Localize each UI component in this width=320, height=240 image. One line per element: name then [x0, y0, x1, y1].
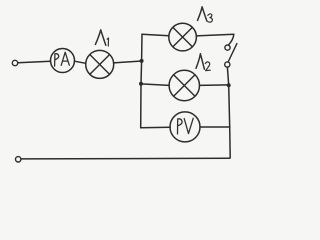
wire top branch left: [142, 34, 169, 36]
wire corner down to switch S: [228, 34, 233, 45]
wire PA to lamp L1: [75, 61, 86, 63]
paper background: [0, 0, 240, 167]
wire PV to right bus: [200, 126, 230, 128]
label Lambda2: [196, 54, 210, 71]
wire node B corner to voltmeter PV: [141, 126, 171, 128]
label PA: [55, 52, 70, 66]
lamp L1: [86, 50, 114, 78]
switch S bottom contact: [225, 62, 230, 67]
voltmeter PV: [170, 112, 200, 142]
label Lambda3: [198, 7, 213, 22]
lamp L3: [169, 23, 197, 51]
label Lambda1: [95, 30, 108, 46]
wire top branch right: [196, 34, 233, 36]
wire left vertical bus: [141, 34, 142, 128]
wire bottom return: [21, 158, 230, 159]
ammeter PA: [51, 49, 75, 73]
wire switch to node C: [227, 67, 228, 85]
label PV: [178, 118, 194, 134]
terminal X1 (top left): [12, 60, 17, 65]
wire terminal to PA: [18, 61, 51, 63]
terminal X2 (bottom left): [16, 157, 21, 162]
wire node C down right bus: [229, 85, 231, 158]
node B junction dot: [139, 82, 143, 86]
switch S blade: [228, 44, 237, 62]
wire L1 to node A: [114, 61, 142, 63]
node A junction dot: [140, 59, 144, 63]
wire lamp L2 to node C: [200, 84, 229, 87]
switch S top contact: [225, 45, 230, 50]
lamp L2: [169, 70, 199, 100]
node C junction dot: [227, 83, 231, 87]
wire node B to lamp L2: [141, 84, 169, 86]
